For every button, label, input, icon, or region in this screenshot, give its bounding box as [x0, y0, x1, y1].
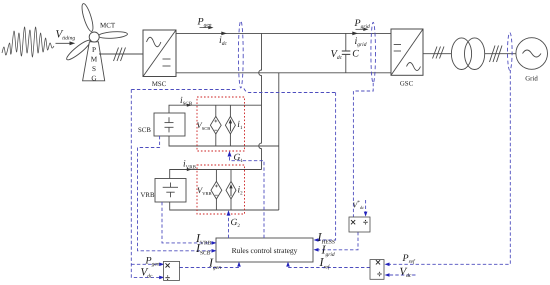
wire transformer to grid	[485, 53, 516, 55]
arrowhead V_dc into mult1	[159, 276, 164, 280]
converter MSC	[143, 30, 176, 77]
SCB box	[154, 113, 185, 136]
turbine hub	[89, 32, 99, 42]
three-phase slashes shaft	[114, 48, 126, 62]
measure capsule i_dc	[238, 21, 243, 88]
source i_1 stubs	[229, 105, 231, 116]
arrow V_tiding	[56, 42, 72, 44]
junction vertical A (top bus to storage +) with hops	[259, 33, 262, 169]
VRB top wire	[170, 170, 262, 179]
arrowhead P_gen into mult1	[159, 263, 164, 267]
rules control strategy box	[216, 238, 313, 262]
svg-text:Grid: Grid	[525, 76, 538, 83]
arrow i_SCB on wire	[187, 104, 192, 107]
arrowhead I_grid into rules	[314, 248, 319, 252]
arrowhead V_dc into mult3	[385, 273, 390, 277]
red converter box 2	[197, 165, 245, 214]
svg-text:C: C	[352, 49, 359, 60]
grid source circle	[516, 38, 548, 70]
PMSG tower	[83, 42, 105, 81]
wire dashed V* stub	[365, 200, 367, 214]
VRB box	[155, 179, 186, 203]
multiplier divider box middle	[349, 217, 370, 232]
three-phase slashes GSC-transformer	[433, 47, 445, 59]
svg-text:SCB: SCB	[138, 127, 151, 134]
transformer	[451, 38, 471, 70]
svg-text:P: P	[92, 46, 96, 54]
wire dashed P_ref down	[387, 70, 510, 264]
source i_2 stubs	[230, 170, 232, 182]
arrowhead P_ref into mult3	[385, 263, 390, 267]
wire dashed top edge right	[244, 89, 336, 93]
multiplier divider box left	[164, 261, 180, 280]
source V_SCB diamond	[210, 116, 221, 134]
svg-text:S: S	[92, 65, 96, 73]
wire dashed left boundary V_dc	[131, 90, 160, 278]
arrowhead G_1	[228, 151, 232, 157]
arrow P_grid	[356, 28, 365, 30]
shaft wire turbine to MSC	[99, 53, 143, 55]
arrow i_dc on bus	[221, 32, 227, 36]
arrowhead G_2	[227, 210, 231, 215]
arrowhead V* into mult2	[364, 212, 368, 217]
capacitor C plates	[342, 50, 351, 52]
svg-text:GSC: GSC	[400, 81, 414, 88]
tidal speed squiggle	[2, 27, 54, 57]
source i_1 diamond	[225, 116, 235, 134]
junction vertical B (bottom bus to storage -)	[278, 73, 280, 210]
svg-text:M: M	[91, 56, 98, 64]
VRB bottom wire	[170, 202, 279, 210]
SCB top wire	[169, 105, 262, 113]
svg-text:MSC: MSC	[152, 81, 167, 88]
three-phase slashes transformer-grid	[490, 46, 503, 63]
wire dashed I_HESS vertical	[316, 93, 336, 241]
wire dashed G_2	[228, 216, 230, 239]
arrow i_grid on bus	[352, 32, 358, 36]
capacitor C wires	[345, 33, 347, 51]
svg-text:MCT: MCT	[100, 22, 116, 30]
svg-text:VRB: VRB	[141, 192, 155, 199]
wire dashed I_VRB tap	[162, 202, 213, 243]
SCB bottom wire	[169, 136, 279, 146]
arrowhead I_VRB into rules	[212, 241, 217, 245]
source V_SCB stubs	[215, 105, 217, 116]
wire dashed P_gen branch	[131, 263, 160, 265]
wire dashed V_dc stub right	[387, 274, 416, 276]
turbine blade upper	[80, 3, 95, 33]
arrowhead I_ref into rules	[286, 262, 290, 267]
measure capsule grid P_ref	[508, 33, 513, 71]
source V_VRB stubs	[215, 170, 217, 182]
red converter box 1	[197, 97, 245, 151]
wire dashed I_ref link	[288, 265, 370, 268]
turbine blade lower-left	[65, 38, 93, 62]
converter GSC	[391, 29, 423, 75]
dc bus bottom wire	[176, 72, 391, 74]
svg-text:Rules control strategy: Rules control strategy	[232, 246, 298, 255]
VRB battery symbol	[163, 183, 178, 198]
SCB capacitor symbol	[165, 117, 174, 132]
turbine blade right	[98, 31, 127, 39]
dc bus top wire	[176, 32, 391, 34]
wire dashed G_1	[230, 155, 265, 239]
measure capsule i_grid	[371, 22, 376, 83]
wire dashed i_grid down	[353, 83, 373, 217]
multiplier divider box right	[370, 260, 384, 280]
svg-text:G: G	[91, 74, 96, 82]
wire dashed I_gen link	[180, 265, 240, 268]
arrowhead I_gen into rules	[237, 262, 241, 267]
arrow P_gen	[200, 27, 210, 29]
wire GSC to transformer	[423, 53, 452, 55]
arrowhead I_HESS into rules	[314, 238, 319, 242]
arrow i_VRB on wire	[187, 168, 192, 171]
source V_VRB diamond	[211, 181, 222, 199]
wire dashed I_SCB tap	[138, 136, 214, 251]
wire dashed top edge left	[131, 89, 237, 91]
wire dashed middle box out I_grid	[316, 232, 358, 250]
source i_2 diamond	[226, 181, 236, 199]
arrowhead I_SCB into rules	[212, 249, 217, 253]
